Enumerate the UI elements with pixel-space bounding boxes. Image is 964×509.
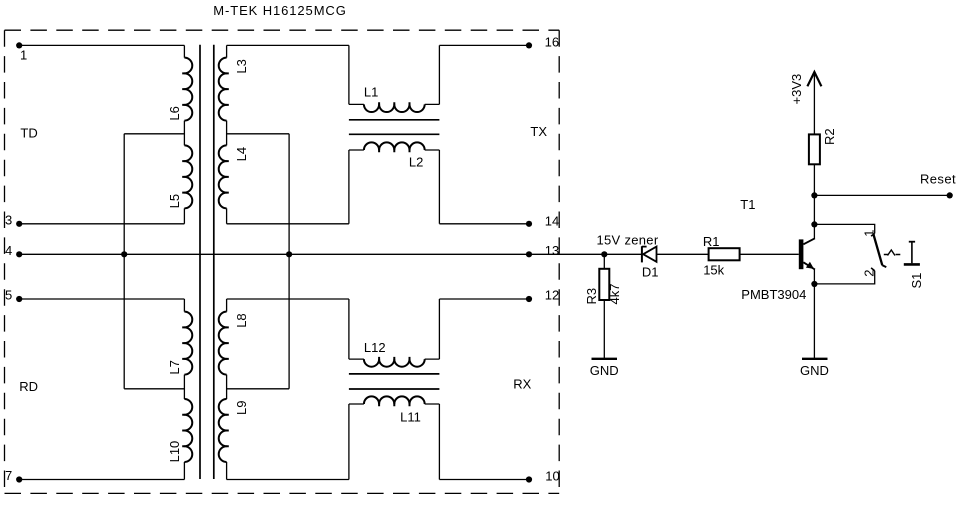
pin 10 (526, 476, 532, 482)
junction emitter (811, 281, 817, 287)
inductor L10 (184, 399, 192, 462)
wire tap L7-L10 (124, 388, 184, 390)
svg-text:Reset: Reset (920, 171, 956, 186)
svg-text:M-TEK H16125MCG: M-TEK H16125MCG (213, 3, 346, 18)
wire right center-tap vertical (288, 134, 290, 389)
svg-text:R3: R3 (584, 288, 599, 305)
svg-text:R2: R2 (822, 128, 837, 145)
inductor L5 (184, 145, 192, 208)
svg-text:3: 3 (5, 213, 12, 228)
svg-text:L6: L6 (167, 106, 182, 120)
wire L11 to pin10 (439, 479, 529, 481)
inductor L7 (184, 312, 192, 375)
pin 5 (16, 296, 22, 302)
svg-text:S1: S1 (909, 273, 924, 289)
svg-text:L1: L1 (364, 85, 378, 100)
svg-text:+3V3: +3V3 (789, 74, 804, 105)
wire R3 bottom (603, 300, 605, 358)
svg-text:D1: D1 (642, 265, 659, 280)
wire stubs right winding column (226, 45, 228, 479)
svg-text:L11: L11 (400, 410, 421, 425)
inductor L11 (364, 396, 425, 404)
transistor T1 PMBT3904 (799, 238, 815, 269)
wire R2 to +3V3 (813, 73, 815, 135)
svg-text:L10: L10 (167, 441, 182, 463)
junction right tap (286, 251, 292, 257)
pin 1 (16, 42, 22, 48)
wire L1 right vertical (438, 45, 440, 479)
inductor L2 (364, 142, 425, 150)
resistor R2 (809, 134, 820, 164)
svg-text:10: 10 (545, 469, 559, 484)
inductor L8 (219, 312, 227, 375)
svg-text:14: 14 (545, 214, 559, 229)
wire L2 to pin14 (439, 223, 529, 225)
svg-text:7: 7 (5, 468, 12, 483)
svg-text:L9: L9 (234, 401, 249, 415)
pin 16 (526, 42, 532, 48)
svg-text:L4: L4 (234, 147, 249, 161)
wire pin4 to pin13 to zener (19, 253, 642, 255)
svg-text:RX: RX (513, 377, 531, 392)
wire L12 to pin12 (439, 298, 529, 300)
svg-text:1: 1 (861, 229, 876, 236)
svg-text:4: 4 (5, 243, 12, 258)
pin 12 (526, 296, 532, 302)
svg-text:T1: T1 (740, 197, 755, 212)
svg-text:TX: TX (530, 124, 547, 139)
svg-text:GND: GND (590, 363, 619, 378)
wire reset (814, 194, 949, 196)
wire L8 top to L12 (227, 298, 349, 300)
pin 13 (526, 251, 532, 257)
svg-text:L12: L12 (364, 340, 386, 355)
inductor L3 (219, 58, 227, 121)
wire left center-tap vertical (123, 134, 125, 389)
transformer module dashed outline (5, 30, 560, 493)
wire L3 top to L1 (227, 44, 349, 46)
svg-text:L5: L5 (167, 194, 182, 208)
svg-text:R1: R1 (703, 234, 720, 249)
inductor L1 (364, 104, 425, 112)
wire L9 bottom to L11 (227, 479, 349, 481)
pin 7 (16, 476, 22, 482)
junction R3 (601, 251, 607, 257)
core TX pair (349, 120, 440, 135)
svg-text:RD: RD (19, 379, 38, 394)
wire D1 to R1 (657, 253, 709, 255)
wire tap L8-L9 (227, 388, 290, 390)
pin 14 (526, 221, 532, 227)
inductor L4 (219, 145, 227, 208)
wire tap L6-L5 (124, 133, 184, 135)
junction collector-switch (811, 221, 817, 227)
power +3V3 arrow (807, 72, 821, 86)
svg-text:L7: L7 (167, 360, 182, 374)
wire L4 bottom to L2 (227, 223, 349, 225)
pin 4 (16, 251, 22, 257)
wire L1 left vertical (348, 45, 350, 479)
wire R3 top (603, 254, 605, 268)
inductor L9 (219, 399, 227, 462)
wire coil stubs horizontal (349, 104, 440, 404)
svg-text:12: 12 (545, 288, 559, 303)
inductor L6 (184, 58, 192, 121)
wire stubs left winding column (183, 45, 185, 479)
wire pin1 row (19, 44, 184, 46)
wire switch bottom (814, 271, 874, 284)
wire pin7 row (19, 479, 184, 481)
wire emitter to GND (813, 269, 815, 358)
svg-text:15V zener: 15V zener (597, 233, 659, 248)
ground GND left (592, 358, 618, 360)
switch S1 (871, 233, 920, 270)
svg-text:4k7: 4k7 (607, 284, 622, 305)
svg-text:PMBT3904: PMBT3904 (741, 287, 806, 302)
transformer core vertical (199, 45, 201, 479)
junction left tap (121, 251, 127, 257)
svg-text:2: 2 (861, 270, 876, 277)
wire collector vertical (813, 164, 815, 238)
diode D1 zener (642, 246, 657, 262)
svg-text:13: 13 (545, 243, 559, 258)
svg-text:15k: 15k (703, 263, 724, 278)
wire tap L3-L4 (227, 133, 290, 135)
resistor R3 (599, 269, 609, 300)
svg-text:5: 5 (5, 288, 12, 303)
svg-text:16: 16 (545, 34, 559, 49)
wire pin5 row (19, 298, 184, 300)
svg-text:L8: L8 (234, 313, 249, 327)
wire L1 to pin16 (439, 44, 529, 46)
wire pin3 row (19, 223, 184, 225)
wire switch top (814, 224, 874, 233)
pin 3 (16, 221, 22, 227)
svg-text:TD: TD (20, 126, 37, 141)
ground GND right (802, 358, 828, 360)
resistor R1 (709, 248, 740, 260)
core RX pair (349, 374, 440, 389)
svg-text:L3: L3 (234, 59, 249, 73)
wire R1 to base (740, 253, 799, 255)
svg-text:L2: L2 (409, 154, 423, 169)
inductor L12 (364, 359, 425, 367)
svg-text:1: 1 (20, 48, 27, 63)
svg-text:GND: GND (800, 363, 829, 378)
junction reset (811, 192, 817, 198)
node Reset end (947, 192, 953, 198)
